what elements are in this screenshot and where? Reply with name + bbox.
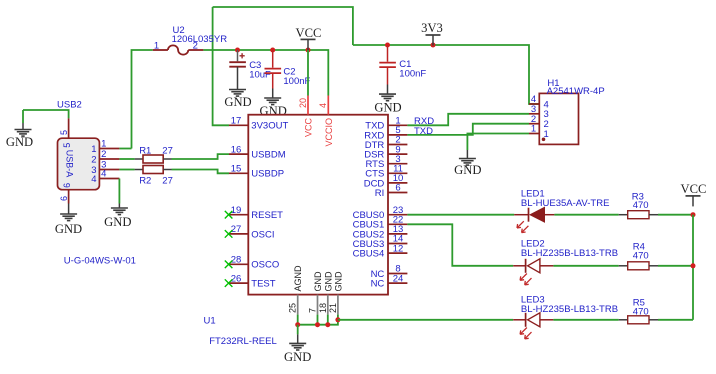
svg-text:20: 20	[298, 98, 308, 108]
H1 pin 2 stub	[529, 123, 539, 125]
U1 pin 11 (CTS) stub	[388, 172, 407, 174]
power 3V3	[426, 34, 441, 36]
svg-text:GND: GND	[374, 101, 401, 115]
svg-text:FT232RL-REEL: FT232RL-REEL	[209, 336, 277, 347]
wire R2 to U1 USBDP	[172, 170, 230, 174]
wire U1 pin 21 to ground bus	[337, 315, 339, 320]
svg-text:TXD: TXD	[414, 126, 433, 137]
H1 pin 3 stub	[529, 113, 539, 115]
wire USB pin 2 to R1	[119, 158, 134, 160]
svg-text:7: 7	[308, 308, 318, 313]
resistor R4	[619, 265, 628, 267]
svg-text:CBUS4: CBUS4	[353, 249, 385, 260]
svg-text:NC: NC	[371, 279, 385, 290]
junction 3V3 rail / 3V3 symbol	[431, 43, 436, 48]
svg-text:BL-HUE35A-AV-TRE: BL-HUE35A-AV-TRE	[521, 198, 610, 209]
svg-text:USB2: USB2	[57, 100, 82, 111]
U1 pin 5 (RXD) stub	[388, 134, 407, 136]
U1 pin 19 (RESET) stub	[229, 214, 248, 216]
junction VCC rail / VCC pin 20	[306, 48, 311, 53]
svg-text:VCC: VCC	[681, 182, 707, 196]
svg-text:BL-HZ235B-LB13-TRB: BL-HZ235B-LB13-TRB	[521, 304, 618, 315]
wire net VCC rail	[203, 50, 328, 96]
svg-text:470: 470	[633, 251, 649, 262]
U1 pin 28 (OSCO) stub	[229, 263, 248, 265]
USB2 pin 4 stub	[99, 178, 119, 180]
svg-text:1: 1	[91, 144, 96, 155]
svg-text:RI: RI	[375, 188, 385, 199]
svg-text:1206L035YR: 1206L035YR	[172, 34, 228, 45]
svg-text:470: 470	[633, 200, 649, 211]
wire U1 RXD to H1 pin 2 (net TXD)	[407, 124, 529, 135]
junction VCC column / R4	[691, 263, 696, 268]
wire R4 to VCC column	[658, 265, 693, 267]
U1 pin 24 (NC) stub	[388, 282, 407, 284]
svg-text:GND: GND	[104, 215, 131, 229]
LED LED2	[513, 265, 525, 267]
svg-text:VCC: VCC	[304, 118, 314, 138]
U1 pin 15 (USBDP) stub	[229, 172, 248, 174]
wire VCC column down	[692, 215, 694, 320]
svg-text:18: 18	[318, 303, 328, 313]
svg-text:470: 470	[633, 306, 649, 317]
U1 pin 3 (RTS) stub	[388, 163, 407, 165]
svg-text:16: 16	[231, 144, 242, 155]
svg-text:4: 4	[318, 103, 328, 108]
H1 pin 1 marker dot	[542, 138, 546, 142]
wire USB pin 1 (VBUS) to U2	[119, 148, 131, 150]
no-connect X on U1 pin 26	[225, 279, 233, 287]
U1 pin 27 (OSCI) stub	[229, 233, 248, 235]
wire U1 TXD to H1 pin 3 (net RXD)	[407, 114, 529, 126]
ground below C3	[237, 88, 239, 91]
power VCC (middle)	[301, 38, 316, 40]
wire ground bus under U1	[298, 320, 338, 325]
U1 pin 8 (NC) stub	[388, 273, 407, 275]
svg-text:10uF: 10uF	[249, 70, 271, 81]
USB2 pin 1 stub	[99, 148, 119, 150]
U1 pin 20 (VCC) stub	[307, 96, 309, 115]
svg-text:12: 12	[393, 243, 404, 254]
capacitor C3	[237, 50, 239, 61]
capacitor C1	[387, 45, 389, 62]
H1 pin 1 stub	[529, 133, 539, 135]
wire U1 pin 18 to ground bus	[327, 315, 329, 325]
wire net 3V3 rail	[353, 45, 539, 104]
wire net VCC rail from USB VBUS to U2 pin 1	[132, 50, 153, 149]
wire USB pin 4 to GND	[118, 179, 120, 204]
svg-text:U1: U1	[204, 316, 216, 327]
IC U1 FT232RL body	[248, 115, 388, 295]
svg-text:17: 17	[231, 116, 242, 127]
LED LED1	[514, 214, 528, 216]
svg-text:GND: GND	[313, 271, 323, 292]
connector USB2 body (USB-A)	[58, 138, 100, 190]
svg-text:1: 1	[154, 41, 159, 52]
svg-text:GND: GND	[323, 271, 333, 292]
svg-text:19: 19	[231, 205, 242, 216]
U1 pin 26 (TEST) stub	[229, 282, 248, 284]
U1 pin 2 (DTR) stub	[388, 144, 407, 146]
U1 pin 4 (VCCIO) stub	[327, 96, 329, 115]
U1 pin 16 (USBDM) stub	[229, 153, 248, 155]
svg-text:6: 6	[395, 183, 400, 194]
svg-text:25: 25	[288, 303, 298, 313]
svg-text:GND: GND	[224, 95, 251, 109]
wire R5 to VCC column	[658, 319, 693, 321]
U1 pin 10 (DCD) stub	[388, 182, 407, 184]
ground below C2	[272, 97, 274, 100]
svg-text:3V3: 3V3	[421, 21, 443, 35]
capacitor C2	[272, 50, 274, 68]
no-connect X on U1 pin 28	[225, 261, 233, 269]
svg-text:6: 6	[62, 183, 72, 188]
U1 pin 22 (CBUS1) stub	[388, 223, 407, 225]
H1 pin 4 stub	[529, 103, 539, 105]
svg-text:OSCO: OSCO	[251, 260, 279, 271]
LED LED3	[513, 319, 525, 321]
resistor R5	[619, 319, 628, 321]
USB2 pin 6 stub bottom	[68, 190, 70, 204]
svg-text:2: 2	[101, 149, 106, 160]
no-connect X on U1 pin 27	[225, 230, 233, 238]
U1 pin 9 (DSR) stub	[388, 153, 407, 155]
USB2 pin 2 stub	[99, 158, 119, 160]
inductor U2	[153, 49, 168, 51]
svg-text:3V3OUT: 3V3OUT	[251, 121, 288, 132]
svg-text:GND: GND	[55, 222, 82, 236]
svg-text:R2: R2	[139, 176, 151, 187]
resistor R1	[135, 158, 143, 160]
svg-text:U-G-04WS-W-01: U-G-04WS-W-01	[64, 256, 136, 267]
wire LED3 to R5	[553, 319, 618, 321]
junction ground bus pin 21	[335, 317, 340, 322]
wire LED2 to R4	[553, 265, 618, 267]
svg-text:21: 21	[328, 303, 338, 313]
wire U1 pin 7 to ground bus	[317, 315, 319, 325]
label C3 polarity +	[240, 55, 245, 57]
svg-text:GND: GND	[454, 163, 481, 177]
junction 3V3 rail / C1	[385, 43, 390, 48]
svg-text:24: 24	[393, 273, 404, 284]
wire net USB2 from shield to GND	[23, 110, 69, 118]
connector H1 body	[539, 93, 578, 144]
resistor R3	[619, 214, 628, 216]
wire R1 to U1 USBDM	[172, 154, 230, 159]
svg-text:4: 4	[101, 169, 106, 180]
svg-text:15: 15	[231, 164, 242, 175]
USB2 pin 5 stub top	[68, 118, 70, 138]
svg-text:GND: GND	[333, 271, 343, 292]
wire U1 CBUS1 to LED2	[407, 224, 513, 265]
svg-text:GND: GND	[6, 135, 33, 149]
ground below USB2 pin 4	[118, 204, 120, 209]
svg-text:A2541WR-4P: A2541WR-4P	[547, 86, 605, 97]
junction VCC column / R3	[691, 212, 696, 217]
wire U1 GND bus to LED3	[338, 319, 513, 321]
svg-text:USBDP: USBDP	[251, 169, 284, 180]
svg-text:27: 27	[231, 224, 242, 235]
svg-text:BL-HZ235B-LB13-TRB: BL-HZ235B-LB13-TRB	[521, 248, 618, 259]
svg-text:27: 27	[162, 176, 173, 187]
svg-text:6: 6	[59, 196, 69, 201]
ground below U1	[297, 334, 299, 343]
U1 pin 6 (RI) stub	[388, 192, 407, 194]
wire net 3V3OUT vertical to U1 pin 17	[213, 7, 229, 125]
ground below USB2 pin 6	[68, 204, 70, 215]
junction ground bus pin 7	[315, 322, 320, 327]
U1 pin 18 (GND) stub	[327, 295, 329, 315]
U1 pin 13 (CBUS2) stub	[388, 233, 407, 235]
USB2 pin 3 stub	[99, 169, 119, 171]
ground below C1	[387, 93, 389, 96]
wire ground bus to GND symbol	[297, 325, 299, 335]
U1 pin 25 (AGND) stub	[297, 295, 299, 315]
junction ground bus pin 18	[325, 322, 330, 327]
svg-text:4: 4	[91, 174, 96, 185]
U1 pin 1 (TXD) stub	[388, 124, 407, 126]
svg-text:AGND: AGND	[293, 265, 303, 292]
wire U1 CBUS0 to LED1	[407, 214, 514, 216]
svg-text:100nF: 100nF	[283, 76, 310, 87]
wire USB pin 3 to R2	[119, 169, 134, 171]
svg-text:5: 5	[59, 130, 69, 135]
power VCC (right)	[686, 195, 701, 197]
U1 pin 17 (3V3OUT) stub	[229, 124, 248, 126]
ground below H1 pin 1	[466, 150, 468, 159]
svg-text:R1: R1	[139, 146, 151, 157]
wire LED1 to R3	[554, 214, 618, 216]
ground far left	[22, 123, 24, 130]
svg-text:1: 1	[531, 124, 536, 135]
U1 pin 23 (CBUS0) stub	[388, 214, 407, 216]
svg-text:2: 2	[91, 154, 96, 165]
svg-text:5: 5	[62, 143, 72, 148]
svg-text:26: 26	[231, 273, 242, 284]
U1 pin 7 (GND) stub	[317, 295, 319, 315]
svg-text:27: 27	[162, 146, 173, 157]
no-connect X on U1 pin 19	[225, 211, 233, 219]
svg-text:VCCIO: VCCIO	[324, 118, 334, 147]
wire U1 pin 25 to ground bus	[297, 315, 299, 325]
svg-text:TEST: TEST	[251, 279, 275, 290]
wire H1 pin 1 to GND	[467, 134, 529, 151]
svg-text:USB-A: USB-A	[65, 150, 75, 178]
svg-text:28: 28	[231, 255, 242, 266]
junction ground bus pin 25	[295, 322, 300, 327]
U1 pin 12 (CBUS4) stub	[388, 252, 407, 254]
junction VCC rail / C3	[235, 48, 240, 53]
svg-text:USBDM: USBDM	[251, 150, 285, 161]
wire VCC rail to U1 pin 20	[307, 50, 309, 96]
svg-text:RESET: RESET	[251, 210, 283, 221]
svg-text:1: 1	[101, 139, 106, 150]
U1 pin 21 (GND) stub	[337, 295, 339, 315]
wire net 3V3OUT top run	[213, 7, 353, 45]
junction VCC rail / C2	[270, 48, 275, 53]
svg-text:VCC: VCC	[296, 26, 322, 40]
svg-text:GND: GND	[284, 350, 311, 364]
wire R3 to VCC	[658, 214, 693, 216]
svg-text:100nF: 100nF	[399, 68, 426, 79]
U1 pin 14 (CBUS3) stub	[388, 243, 407, 245]
svg-text:OSCI: OSCI	[251, 229, 274, 240]
resistor R2	[135, 169, 143, 171]
wire USB2 shield down	[22, 110, 24, 123]
